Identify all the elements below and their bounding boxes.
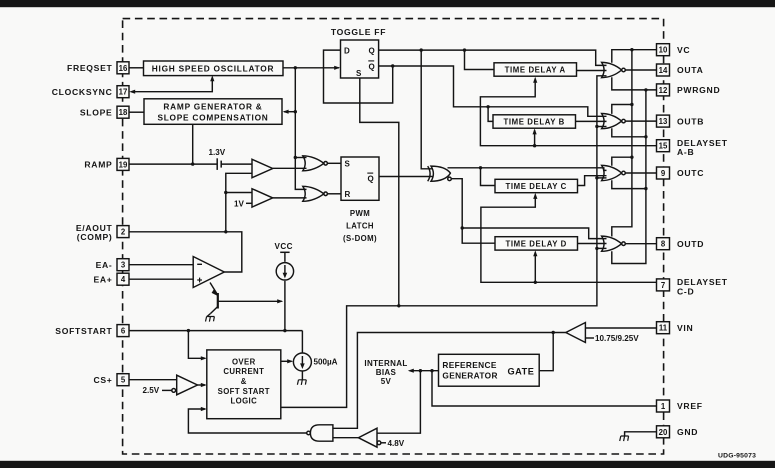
svg-text:CURRENT: CURRENT bbox=[223, 367, 264, 376]
svg-text:17: 17 bbox=[119, 88, 128, 97]
svg-text:OUTC: OUTC bbox=[677, 168, 704, 178]
block U-TDC TIME DELAY C bbox=[495, 179, 578, 192]
gate OUTC driver NOR bbox=[602, 165, 626, 180]
wire CMP4 output down to reference generator gate input bbox=[539, 333, 553, 371]
node VC to OUTC bbox=[630, 156, 633, 159]
svg-text:CS+: CS+ bbox=[93, 375, 112, 385]
wire VC to OUTB gate top bbox=[612, 105, 632, 114]
node CMP4 output to reference gate bbox=[552, 331, 555, 334]
svg-text:16: 16 bbox=[119, 64, 128, 73]
wire VC pin 10 to OUTA gate top bbox=[612, 50, 657, 63]
wire OUTB gate bottom to PWRGND rail bbox=[612, 128, 646, 137]
gate AND undervoltage lockout, left facing bbox=[307, 425, 333, 441]
transistor Q1 clamp bbox=[210, 283, 283, 314]
wire oscillator output to toggle FF clock, arrow bbox=[283, 66, 340, 70]
svg-text:UDG-95073: UDG-95073 bbox=[718, 453, 756, 460]
svg-text:RAMP: RAMP bbox=[84, 160, 112, 170]
svg-text:VREF: VREF bbox=[677, 401, 703, 411]
svg-text:15: 15 bbox=[659, 142, 668, 151]
svg-text:VC: VC bbox=[677, 45, 690, 55]
wire disable rail to OUTD bottom input bbox=[597, 247, 607, 249]
svg-text:EA-: EA- bbox=[96, 260, 113, 270]
wire pin19 RAMP line bbox=[129, 163, 217, 165]
wire threshold tick to comparator bbox=[585, 337, 594, 339]
node osc output junction bbox=[294, 66, 297, 69]
svg-text:SLOPE: SLOPE bbox=[80, 107, 113, 117]
wire Qbar down to time delay B input bbox=[488, 107, 493, 122]
wire toggle FF Q output to right bbox=[379, 50, 607, 65]
wire pin 4 EA+ input bbox=[129, 278, 193, 280]
IC dashed boundary box bbox=[123, 19, 664, 454]
battery 1.3V offset bbox=[217, 158, 221, 170]
wire AND output to logic box bottom input, arrow bbox=[188, 407, 306, 433]
label INTERNAL BIAS 5V bbox=[364, 359, 407, 386]
node clock to ramp generator sync bbox=[294, 110, 297, 113]
svg-text:GND: GND bbox=[677, 427, 698, 437]
svg-text:13: 13 bbox=[659, 117, 668, 126]
wire Q down to time delay A input bbox=[465, 50, 495, 69]
svg-text:HIGH SPEED OSCILLATOR: HIGH SPEED OSCILLATOR bbox=[152, 63, 274, 73]
node Qbar feedback junction bbox=[391, 64, 394, 67]
wire time delay C output to OUTC gate bbox=[578, 176, 607, 186]
node VC to OUTB bbox=[630, 103, 633, 106]
top black bar bbox=[0, 0, 775, 7]
node Q to XOR bbox=[420, 48, 423, 51]
svg-text:RAMP GENERATOR &: RAMP GENERATOR & bbox=[163, 102, 262, 112]
svg-text:Q: Q bbox=[369, 63, 375, 72]
svg-text:9: 9 bbox=[661, 169, 666, 178]
block U-SSL OVER CURRENT & SOFT START LOGIC bbox=[207, 350, 281, 419]
node PWRGND to OUTB bbox=[644, 135, 647, 138]
node DELAYSET C-D to time delay D bbox=[534, 281, 537, 284]
svg-text:R: R bbox=[345, 190, 351, 199]
svg-text:SLOPE COMPENSATION: SLOPE COMPENSATION bbox=[157, 113, 268, 123]
wire CMP4 output to AND gate top input bbox=[333, 333, 566, 429]
gate XOR phase shift bbox=[428, 166, 452, 181]
pin 6 SOFTSTART bbox=[55, 325, 129, 337]
svg-text:5: 5 bbox=[121, 376, 126, 385]
current source VCC pullup bbox=[276, 252, 293, 280]
pin 20 GND bbox=[657, 426, 699, 438]
svg-text:14: 14 bbox=[659, 66, 668, 75]
wire OUTA gate output to pin 14 bbox=[625, 69, 656, 71]
node ramp generator output tap bbox=[191, 162, 194, 165]
svg-text:TIME DELAY B: TIME DELAY B bbox=[504, 118, 565, 127]
svg-text:GATE: GATE bbox=[508, 367, 535, 377]
pin 11 VIN bbox=[657, 322, 694, 334]
svg-text:TOGGLE FF: TOGGLE FF bbox=[331, 27, 386, 37]
node COMP line junction bbox=[224, 230, 227, 233]
wire toggle FF Qbar line to OUTB gate bbox=[393, 66, 607, 116]
block U-TDD TIME DELAY D bbox=[495, 237, 578, 250]
wire 2.5V to comparator input with bubble bbox=[162, 389, 176, 393]
wire logic box to 500uA source, arrow bbox=[281, 359, 293, 363]
wire OUTB gate output to pin 13 bbox=[625, 120, 656, 122]
node softstart to clamp chain bbox=[283, 329, 286, 332]
current source 500uA soft start bbox=[293, 331, 311, 380]
pin 18 SLOPE bbox=[80, 106, 129, 118]
block U-REF REFERENCE GENERATOR / GATE bbox=[439, 354, 540, 386]
svg-text:(S-DOM): (S-DOM) bbox=[343, 234, 377, 243]
wire CMP2 output to NOR2 bbox=[273, 197, 307, 199]
svg-text:INTERNAL: INTERNAL bbox=[364, 359, 407, 368]
pin 5 CS+ bbox=[93, 374, 129, 386]
wire NOR1 to latch S bbox=[327, 162, 341, 164]
wire VIN pin 11 to comparator bbox=[585, 327, 656, 329]
wire clock to NOR1 top input bbox=[295, 157, 306, 159]
node clock to NOR1 bbox=[294, 156, 297, 159]
wire PWM latch Qbar to XOR input bbox=[379, 176, 433, 178]
svg-text:REFERENCE: REFERENCE bbox=[442, 360, 496, 370]
wire Q down to XOR top input bbox=[421, 50, 433, 169]
svg-text:A-B: A-B bbox=[677, 147, 694, 157]
pin 17 CLOCKSYNC bbox=[52, 86, 129, 98]
wire pin16 to oscillator bbox=[129, 67, 144, 69]
svg-text:S: S bbox=[345, 160, 351, 169]
pin 13 OUTB bbox=[657, 115, 705, 127]
wire toggle FF S input from below bbox=[360, 78, 399, 306]
arrow into time delay C bottom bbox=[533, 193, 537, 199]
svg-text:CLOCKSYNC: CLOCKSYNC bbox=[52, 87, 113, 97]
block U-PWM PWM latch box bbox=[341, 157, 379, 200]
svg-text:TIME DELAY D: TIME DELAY D bbox=[506, 239, 567, 248]
node reference to VREF pin bbox=[430, 369, 433, 372]
pin 4 EA+ bbox=[93, 273, 129, 285]
svg-text:TIME DELAY C: TIME DELAY C bbox=[506, 182, 567, 191]
op-amp CMP5 VREF good comparator, left facing bbox=[358, 428, 377, 447]
node XOR inverted to OUTD direct bbox=[461, 226, 464, 229]
ground for transistor bbox=[206, 314, 215, 322]
block U-OSC HIGH SPEED OSCILLATOR bbox=[144, 61, 284, 76]
wire DELAYSET C-D from pin 7 to delay controls bbox=[481, 195, 657, 282]
pin 14 OUTA bbox=[657, 64, 704, 76]
svg-text:10: 10 bbox=[659, 46, 668, 55]
node PWRGND to OUTC bbox=[644, 187, 647, 190]
op-amp CMP1 PWM comparator 1.3V bbox=[252, 159, 273, 177]
ground for 500uA source bbox=[297, 380, 306, 385]
wire reference to VREF pin 1 bbox=[432, 371, 657, 406]
svg-text:Q: Q bbox=[369, 46, 375, 55]
svg-text:VCC: VCC bbox=[275, 242, 293, 251]
svg-text:5V: 5V bbox=[381, 377, 392, 386]
gate NOR2 PWM latch reset bbox=[303, 186, 328, 201]
gate OUTD driver NOR bbox=[602, 236, 626, 251]
svg-text:1: 1 bbox=[661, 402, 666, 411]
wire 1V to CMP2 input bbox=[246, 202, 252, 204]
label 4.8V with bubble input bbox=[377, 439, 405, 448]
wire toggle FF Qbar to D feedback bbox=[324, 50, 393, 103]
svg-text:TIME DELAY A: TIME DELAY A bbox=[505, 66, 566, 75]
node disable rail to OUTC input bbox=[595, 176, 598, 179]
svg-text:OUTD: OUTD bbox=[677, 239, 704, 249]
op-amp EA error amplifier bbox=[193, 257, 224, 288]
svg-text:2: 2 bbox=[121, 228, 126, 237]
svg-text:11: 11 bbox=[659, 324, 668, 333]
svg-text:(COMP): (COMP) bbox=[77, 232, 113, 242]
wire CMP1 output to NOR1 bbox=[273, 167, 307, 169]
svg-text:7: 7 bbox=[661, 281, 665, 290]
block U-RAMP RAMP GENERATOR & SLOPE COMPENSATION bbox=[144, 99, 282, 125]
svg-text:VIN: VIN bbox=[677, 323, 693, 333]
wire E/AOUT COMP line bbox=[129, 232, 242, 272]
node COMP to CMP2 bbox=[224, 191, 227, 194]
wire PWRGND rail down to OUTD gate bottom bbox=[612, 90, 646, 264]
wire softstart into logic box top input, arrow bbox=[188, 331, 206, 361]
node VC rail top bbox=[630, 48, 633, 51]
block U-TDB TIME DELAY B bbox=[493, 115, 576, 128]
pin 8 OUTD bbox=[657, 238, 705, 250]
svg-text:500µA: 500µA bbox=[314, 358, 338, 367]
wire OUTC gate bottom to PWRGND rail bbox=[612, 180, 646, 188]
svg-text:8: 8 bbox=[661, 240, 666, 249]
arrow into time delay A bottom bbox=[533, 77, 537, 83]
node Q to time delay A bbox=[463, 48, 466, 51]
wire clock rail down to NOR gates bbox=[295, 68, 306, 190]
svg-text:PWM: PWM bbox=[350, 209, 370, 218]
svg-text:3: 3 bbox=[121, 261, 126, 270]
node DELAYSET A-B to time delay B bbox=[533, 144, 536, 147]
node reference to 4.8V comparator bbox=[419, 369, 422, 372]
wire XOR output down to time delay C input bbox=[481, 168, 496, 186]
wire ramp generator down to RAMP line bbox=[192, 124, 194, 164]
wire time delay D output to OUTD gate bbox=[578, 243, 607, 245]
svg-text:19: 19 bbox=[119, 160, 128, 169]
wire clock to ramp generator input, arrow left bbox=[283, 110, 296, 114]
op-amp CMP3 current sense comparator bbox=[177, 375, 198, 395]
node softstart to logic box bbox=[187, 329, 190, 332]
op-amp CMP4 VIN UVLO comparator, left facing bbox=[566, 323, 586, 343]
op-amp CMP2 1V comparator bbox=[252, 189, 273, 207]
svg-text:1V: 1V bbox=[234, 200, 245, 209]
pin 9 OUTC bbox=[657, 167, 705, 179]
svg-text:10.75/9.25V: 10.75/9.25V bbox=[595, 334, 639, 343]
wire reference output to internal bias, arrow left bbox=[408, 369, 439, 373]
wire disable rail to OUTB bottom input bbox=[597, 126, 607, 128]
wire DELAYSET A-B from pin 15 to delay controls bbox=[480, 79, 656, 146]
wire CMP5 output to AND gate bottom input bbox=[333, 437, 359, 439]
gate NOR1 PWM latch set bbox=[303, 156, 328, 171]
svg-text:Q: Q bbox=[368, 175, 374, 184]
svg-text:S: S bbox=[356, 69, 362, 78]
wire time delay A output to OUTA gate bbox=[577, 70, 607, 72]
svg-text:SOFTSTART: SOFTSTART bbox=[55, 326, 112, 336]
pin 10 VC bbox=[657, 44, 691, 56]
svg-text:6: 6 bbox=[121, 327, 126, 336]
wire XOR inverted output to time delay D bbox=[451, 179, 495, 244]
block U-TFF TOGGLE FF box bbox=[341, 40, 379, 78]
svg-text:20: 20 bbox=[659, 428, 668, 437]
svg-text:FREQSET: FREQSET bbox=[67, 63, 113, 73]
wire battery to PWM comparator bbox=[221, 163, 252, 165]
wire OUTD gate output to pin 8 bbox=[625, 243, 656, 245]
svg-text:18: 18 bbox=[119, 108, 128, 117]
wire CS+ pin 5 to comparator bbox=[129, 379, 177, 381]
svg-text:4.8V: 4.8V bbox=[388, 439, 405, 448]
wire time delay B output to OUTB gate bbox=[576, 120, 607, 122]
wire VC to OUTC gate top bbox=[612, 157, 632, 166]
svg-text:GENERATOR: GENERATOR bbox=[442, 371, 497, 381]
ground for GND pin bbox=[620, 436, 629, 441]
wire GND pin 20 to ground bbox=[625, 432, 657, 436]
pin 19 RAMP bbox=[84, 158, 129, 170]
wire pin 3 EA- input bbox=[129, 264, 193, 266]
wire XOR inverted direct to OUTD gate bbox=[462, 228, 606, 239]
wire NOR2 to latch R bbox=[327, 193, 341, 195]
gate OUTB driver NOR bbox=[602, 114, 626, 129]
svg-text:PWRGND: PWRGND bbox=[677, 85, 720, 95]
label PWM LATCH (S-DOM) bbox=[343, 209, 377, 243]
pin 1 VREF bbox=[657, 400, 703, 412]
node disable rail to OUTB input bbox=[595, 125, 598, 128]
wire COMP to CMP2 plus input bbox=[226, 192, 252, 194]
wire control up to time delay D bottom, arrow bbox=[533, 250, 537, 282]
wire VC rail down to OUTD gate top bbox=[612, 50, 632, 237]
block U-TDA TIME DELAY A bbox=[494, 63, 577, 76]
svg-text:2.5V: 2.5V bbox=[143, 386, 160, 395]
svg-text:D: D bbox=[344, 46, 350, 55]
wire pin18 to ramp generator bbox=[129, 111, 144, 113]
wire OUTA gate bottom to PWRGND pin 12 bbox=[612, 77, 657, 90]
pin 16 FREQSET bbox=[67, 62, 129, 74]
wire disable rail to OUTC bottom input bbox=[597, 177, 607, 179]
pin 12 PWRGND bbox=[657, 84, 721, 96]
pin 3 EA- bbox=[96, 259, 129, 271]
wire control up to time delay B bottom, arrow bbox=[533, 128, 537, 145]
wire VCC source down to softstart line bbox=[284, 281, 286, 331]
svg-text:C-D: C-D bbox=[677, 286, 694, 296]
wire CMP1 inverting input from COMP net bbox=[226, 173, 252, 232]
bottom black bar bbox=[0, 461, 775, 468]
wire CMP3 output into logic box, arrow bbox=[198, 383, 207, 387]
node PWRGND rail top bbox=[644, 88, 647, 91]
svg-text:12: 12 bbox=[659, 86, 668, 95]
svg-text:BIAS: BIAS bbox=[376, 368, 397, 377]
node XOR output to time delay C bbox=[479, 166, 482, 169]
svg-text:OVER: OVER bbox=[232, 357, 256, 366]
svg-text:LOGIC: LOGIC bbox=[230, 397, 257, 406]
wire OUTC gate output to pin 9 bbox=[625, 172, 656, 174]
svg-text:&: & bbox=[241, 377, 247, 386]
node toggle S joins disable rail bbox=[397, 304, 400, 307]
svg-text:1.3V: 1.3V bbox=[209, 148, 226, 157]
svg-text:OUTA: OUTA bbox=[677, 65, 704, 75]
gate OUTA driver NOR bbox=[602, 62, 626, 77]
node Qbar to time delay B bbox=[486, 105, 489, 108]
pin 15 DELAYSET A-B bbox=[657, 138, 728, 157]
svg-text:OUTB: OUTB bbox=[677, 116, 704, 126]
wire reference down to 4.8V comparator input bbox=[377, 371, 420, 434]
wire disable rail from OUTA gate bottom input down to logic bbox=[281, 76, 607, 408]
wire CLOCKSYNC bidirectional to oscillator bbox=[129, 75, 214, 94]
wire XOR true output to OUTC gate bbox=[448, 168, 607, 171]
svg-text:SOFT START: SOFT START bbox=[218, 387, 270, 396]
svg-text:4: 4 bbox=[121, 275, 126, 284]
pin 7 DELAYSET C-D bbox=[657, 277, 728, 296]
svg-text:LATCH: LATCH bbox=[346, 222, 374, 231]
node disable rail to OUTD input bbox=[595, 247, 598, 250]
pin 2 E/AOUT (COMP) bbox=[76, 223, 129, 242]
svg-text:EA+: EA+ bbox=[93, 274, 112, 284]
wire SOFTSTART pin 6 line bbox=[129, 330, 302, 332]
